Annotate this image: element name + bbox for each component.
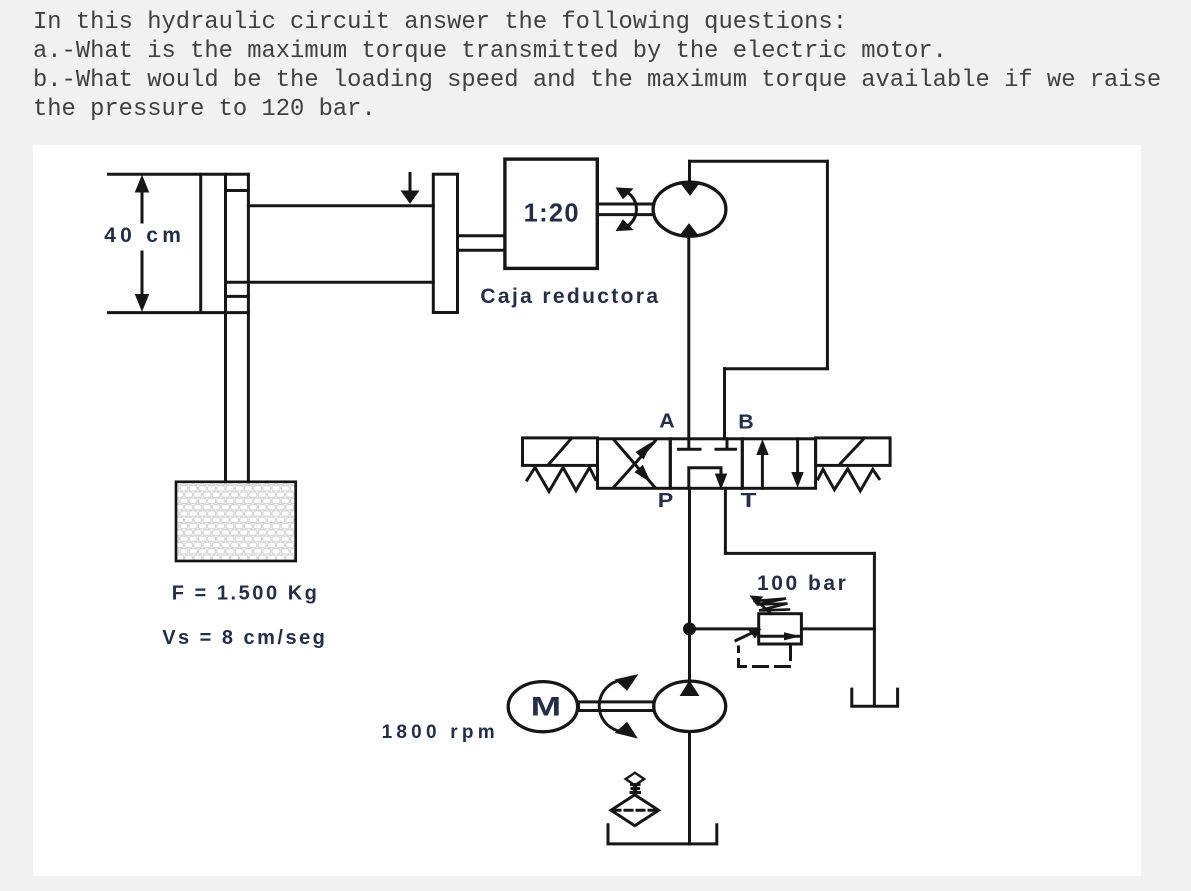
relief pilot arrowhead: [750, 629, 761, 637]
relief valve body: [759, 614, 802, 644]
drum body top line: [248, 204, 433, 207]
wire T valve down: [724, 488, 727, 553]
cable tick upper: [226, 189, 249, 192]
solenoid box right: [816, 438, 891, 466]
drum down arrowhead: [402, 191, 419, 203]
svg-text:M: M: [531, 691, 562, 721]
valve main body centre envelope: [670, 439, 742, 489]
left envelope arrowhead up-right: [637, 444, 650, 458]
right envelope arrowhead down: [792, 473, 803, 487]
svg-text:A: A: [659, 411, 675, 433]
wire motor top up: [688, 161, 691, 182]
wire right vertical down: [826, 161, 829, 368]
shaft gearbox to motor lower line: [597, 213, 654, 216]
spring right: [818, 469, 879, 491]
right envelope straight arrow up: [761, 445, 764, 488]
gearbox U1 box: [505, 159, 597, 268]
rotation arrowhead bottom (motor): [617, 220, 633, 231]
left envelope arrowhead down-right: [636, 466, 649, 480]
relief spring arrowhead: [751, 596, 763, 604]
relief internal arrowhead right: [785, 633, 799, 640]
white drawing canvas: [33, 145, 1141, 876]
weight block: [176, 482, 296, 561]
rotation arrowhead top (pump): [616, 675, 638, 690]
right envelope arrowhead up: [757, 441, 768, 455]
relief valve pilot diagonal arrow: [736, 630, 758, 641]
breather stem: [630, 785, 642, 793]
shaft drum to gearbox lower line: [458, 249, 505, 252]
wire horizontal to B: [725, 367, 828, 370]
relief branch horizontal wire: [690, 627, 875, 630]
spring left: [527, 468, 596, 492]
svg-text:100 bar: 100 bar: [757, 572, 846, 595]
tank bottom right: [852, 689, 898, 706]
down arrow shaft on drum: [409, 174, 412, 196]
centre envelope P to T path: [689, 468, 721, 489]
cable right line: [247, 174, 250, 482]
relief valve spring zigzag: [755, 599, 790, 611]
wire A motor to valve: [687, 236, 690, 439]
rotation arrow arc at motor shaft: [620, 190, 636, 230]
wire T horizontal right: [725, 552, 874, 555]
motor circle bottom triangle: [680, 224, 698, 236]
drum left flange: [199, 174, 202, 311]
dimension arrowhead up: [136, 176, 149, 192]
breather small diamond: [626, 773, 645, 785]
valve main body right envelope: [742, 439, 815, 489]
dimension arrow 40cm lower segment: [141, 252, 144, 306]
rotation arrow arc at pump shaft: [599, 682, 617, 731]
solenoid box left: [523, 438, 598, 466]
svg-text:T: T: [741, 490, 757, 512]
wire pump suction down: [688, 732, 691, 844]
svg-text:Caja reductora: Caja reductora: [480, 285, 658, 308]
hydraulic motor circle: [653, 182, 726, 236]
motor circle top triangle: [681, 183, 699, 195]
centre envelope blocked port B stub: [726, 439, 729, 449]
wire P valve down to pump: [688, 488, 691, 681]
right envelope straight arrow down: [796, 439, 799, 482]
svg-text:P: P: [658, 490, 674, 512]
wire top horizontal to right: [690, 160, 828, 163]
tank bottom main: [608, 825, 717, 844]
pump top triangle: [681, 681, 699, 695]
pump circle: [654, 681, 726, 731]
cable tick lower: [226, 295, 249, 298]
dimension arrowhead down: [136, 295, 149, 311]
wire bottom reference line of drum: [109, 311, 249, 314]
relief valve dashed pilot loop: [739, 646, 791, 667]
cable left line: [224, 174, 227, 482]
solenoid left diagonal: [549, 438, 572, 464]
shaft drum to gearbox upper line: [458, 234, 505, 237]
rotation arrowhead bottom (pump): [616, 723, 637, 738]
svg-text:1:20: 1:20: [524, 200, 579, 228]
rotation arrowhead top (motor): [617, 188, 633, 199]
filter diamond: [611, 795, 659, 826]
shaft gearbox to motor upper line: [597, 203, 654, 206]
shaft M to pump: [579, 702, 655, 711]
svg-text:Vs = 8 cm/seg: Vs = 8 cm/seg: [162, 627, 325, 649]
wire top reference line of drum: [109, 173, 249, 176]
dimension arrow 40cm upper segment: [141, 181, 144, 222]
svg-text:B: B: [738, 412, 754, 434]
electric motor M circle: [508, 682, 577, 732]
wire T right vertical down to tank: [873, 553, 876, 706]
relief valve internal flow line: [759, 635, 802, 638]
junction node P-relief: [684, 623, 696, 635]
drum right flange: [433, 174, 457, 312]
filter dashed element: [613, 809, 657, 812]
solenoid right diagonal: [841, 438, 865, 463]
wire B down to valve: [723, 369, 726, 439]
left envelope crossed arrows: [614, 441, 656, 488]
centre envelope blocked port A stub: [687, 439, 690, 449]
centre envelope arrowhead down: [716, 474, 727, 488]
relief valve spring arrow line: [756, 600, 771, 614]
drum body bottom line: [226, 281, 434, 284]
valve main body left envelope: [598, 439, 671, 489]
